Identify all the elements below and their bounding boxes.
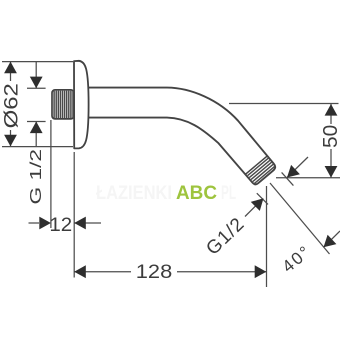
dim 50 line segments	[330, 104, 332, 124]
outlet vertical extension	[266, 186, 268, 287]
shower arm tube body	[86, 88, 275, 185]
arrow O62 down	[4, 135, 17, 147]
arrow 40 upper	[287, 165, 300, 178]
svg-text:ABC: ABC	[176, 183, 217, 204]
thread bottom extension	[27, 121, 46, 123]
watermark lazienkiabc.pl	[96, 183, 236, 204]
dim 50 bottom extension	[276, 177, 340, 179]
outlet thread hatch (G1/2 end)	[248, 158, 275, 183]
arrow 12 right-pointing	[39, 217, 51, 230]
arrow thread up	[30, 122, 43, 134]
svg-text:G 1/2: G 1/2	[27, 149, 45, 205]
svg-text:128: 128	[136, 261, 172, 282]
dim 12 left arrow tail	[29, 222, 40, 224]
dim 12 right arrow tail	[74, 222, 101, 224]
dim 128 line right part	[177, 271, 267, 273]
arrow 128 left	[74, 265, 86, 278]
dim 12 / 128 shared extension	[73, 152, 75, 278]
arrow 12 left-pointing	[74, 217, 86, 230]
outlet thread start line	[245, 156, 267, 174]
dimension lines	[2, 62, 340, 287]
svg-text:G1/2: G1/2	[202, 214, 249, 260]
wall-side thread G1/2	[52, 90, 74, 119]
arrow G1/2 leader	[251, 198, 264, 211]
G1/2 leader shaft	[245, 204, 258, 217]
arrow 128 right	[255, 265, 267, 278]
arrow thread down	[30, 77, 43, 89]
thread dim line upper	[35, 62, 37, 89]
svg-text:40°: 40°	[279, 241, 316, 276]
40deg lower arrow shaft	[324, 231, 340, 247]
40deg diagonal extension	[270, 183, 330, 254]
dim 50 top extension	[229, 103, 339, 105]
arrow 50 down	[325, 166, 338, 178]
40deg upper slash stub	[282, 172, 294, 185]
dim 12 left extension	[50, 120, 52, 228]
svg-text:12: 12	[49, 215, 72, 236]
svg-text:Ø62: Ø62	[0, 83, 22, 128]
dim O62 bottom extension line	[2, 146, 73, 148]
40deg upper arrow shaft	[287, 157, 308, 178]
dim O62 line segments	[10, 62, 12, 81]
arrow 50 up	[325, 104, 338, 116]
dim 128 line left part	[74, 271, 131, 273]
svg-text:ŁAZIENKI: ŁAZIENKI	[96, 183, 172, 204]
thread top extension	[27, 87, 46, 89]
G1/2 leader slash stub	[257, 193, 268, 204]
dim O62 top extension line	[2, 61, 73, 63]
svg-text:PL: PL	[221, 183, 236, 204]
flange (wall escutcheon)	[74, 61, 89, 149]
arrow 40 lower	[324, 235, 337, 248]
dimension texts	[0, 83, 340, 282]
svg-text:50: 50	[319, 125, 340, 148]
arrow O62 up	[4, 62, 17, 74]
thread dim line lower	[35, 122, 37, 148]
arrows	[4, 62, 337, 279]
